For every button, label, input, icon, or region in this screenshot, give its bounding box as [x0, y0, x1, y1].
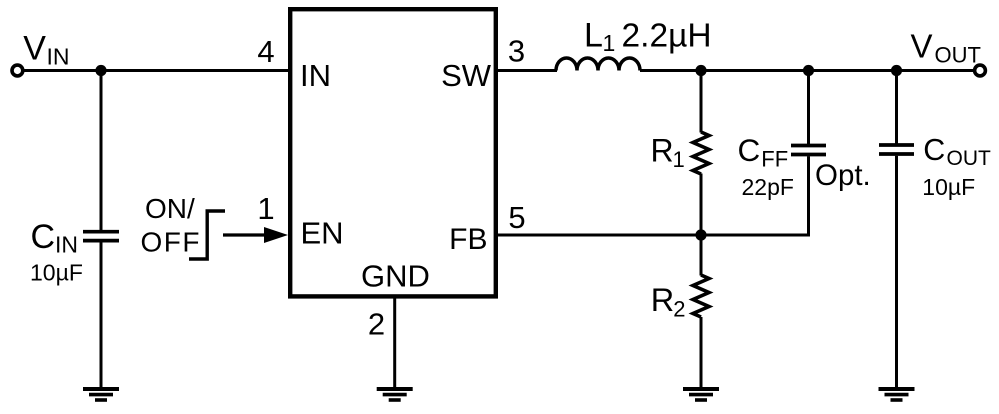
svg-text:EN: EN: [301, 216, 344, 251]
wire VIN to IN pin: [24, 69, 290, 72]
label R2: [651, 282, 686, 322]
svg-text:1: 1: [257, 191, 274, 226]
node VIN/CIN junction: [95, 65, 106, 76]
svg-text:22pF: 22pF: [742, 174, 794, 200]
svg-text:1: 1: [673, 147, 685, 172]
capacitor COUT: [879, 145, 914, 154]
svg-text:4: 4: [257, 34, 274, 69]
wire R1 top: [700, 71, 703, 133]
svg-text:V: V: [23, 29, 46, 67]
svg-text:C: C: [31, 218, 56, 256]
svg-text:R: R: [651, 132, 674, 168]
label COUT: [923, 133, 991, 170]
arrow into EN: [223, 227, 288, 243]
node COUT top: [891, 65, 902, 76]
node CFF top: [803, 65, 814, 76]
terminal VOUT: [975, 65, 986, 76]
svg-text:3: 3: [508, 34, 525, 69]
svg-text:2.2µH: 2.2µH: [622, 17, 712, 54]
svg-text:SW: SW: [441, 58, 492, 93]
terminal VIN: [12, 65, 23, 76]
svg-text:C: C: [738, 132, 761, 168]
node R1 top: [695, 65, 706, 76]
wire GND pin: [393, 296, 396, 389]
label ON/OFF: [141, 193, 202, 258]
svg-text:Opt.: Opt.: [815, 159, 871, 192]
svg-text:10µF: 10µF: [922, 174, 975, 200]
label VIN: [23, 29, 69, 69]
inductor L1: [556, 58, 640, 71]
svg-text:10µF: 10µF: [30, 260, 83, 286]
svg-text:R: R: [651, 282, 674, 318]
wire R2 bottom: [700, 317, 703, 389]
wire R2 top: [700, 235, 703, 276]
capacitor CFF: [791, 146, 826, 155]
svg-text:2: 2: [673, 297, 685, 322]
svg-text:IN: IN: [300, 58, 331, 93]
svg-text:L: L: [584, 16, 603, 54]
wire SW pin to L1: [496, 69, 557, 72]
svg-text:2: 2: [368, 307, 385, 342]
ground COUT: [879, 389, 915, 400]
label R1: [651, 132, 685, 172]
svg-text:1: 1: [603, 30, 616, 56]
wire COUT bottom: [895, 156, 898, 389]
svg-text:5: 5: [508, 200, 525, 235]
svg-text:IN: IN: [47, 43, 70, 69]
wire L1 to VOUT: [640, 69, 974, 72]
svg-text:FF: FF: [761, 147, 788, 172]
svg-text:GND: GND: [361, 259, 430, 294]
resistor R2: [693, 275, 709, 317]
ground R2: [683, 389, 719, 400]
wire R1 bottom: [700, 174, 703, 236]
label CIN: [31, 218, 79, 258]
ground U1 GND: [377, 389, 413, 400]
svg-text:OFF: OFF: [141, 227, 202, 258]
svg-text:OUT: OUT: [947, 147, 992, 170]
svg-text:V: V: [911, 28, 933, 65]
step edge symbol: [189, 211, 225, 259]
IC U1 regulator box: [290, 9, 496, 296]
svg-text:FB: FB: [449, 223, 487, 256]
label CFF: [738, 132, 789, 171]
resistor R1: [693, 132, 709, 174]
wire FB pin to CFF: [496, 234, 809, 237]
svg-text:ON/: ON/: [145, 193, 195, 224]
wire CFF bottom: [807, 156, 810, 236]
svg-text:IN: IN: [55, 232, 78, 258]
svg-text:C: C: [923, 133, 945, 167]
wire CIN bottom: [100, 242, 103, 389]
svg-text:OUT: OUT: [935, 42, 981, 67]
wire CIN top: [100, 71, 103, 231]
capacitor CIN: [83, 232, 119, 241]
label L1 2.2uH: [584, 16, 712, 56]
label VOUT: [911, 28, 981, 68]
node FB junction: [695, 229, 706, 240]
wire COUT top: [895, 71, 898, 144]
ground CIN: [83, 389, 119, 400]
wire CFF top: [807, 71, 810, 145]
